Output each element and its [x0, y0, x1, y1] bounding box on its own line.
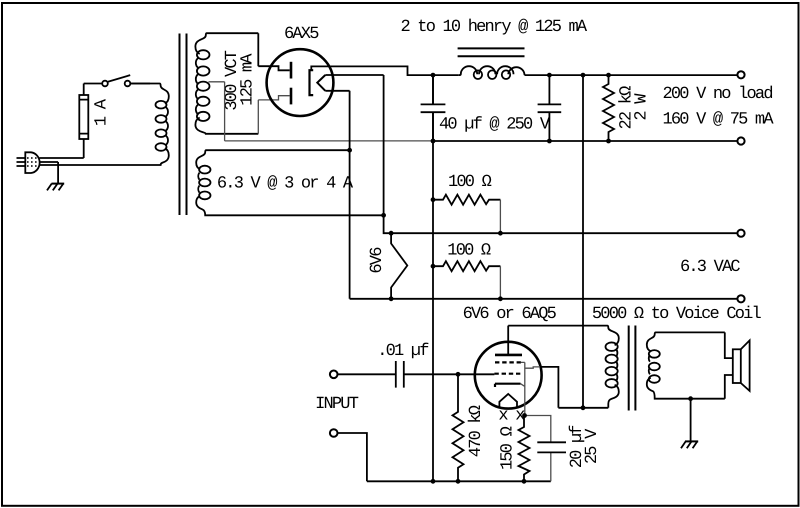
junction: 6.3V winding bottom / V1 filament [381, 213, 386, 218]
AC plug P1 [25, 152, 39, 173]
V2 control grid (dashed) [494, 373, 520, 375]
ground (AC safety) [47, 184, 64, 191]
wire: V1 filament pin to heater junction A [325, 75, 383, 215]
svg-text:100 Ω: 100 Ω [447, 242, 491, 261]
svg-text:6.3 V @ 3 or 4 A: 6.3 V @ 3 or 4 A [217, 175, 354, 194]
wire: HV center tap to B- bus [209, 82, 434, 141]
input jack J2 [330, 429, 338, 437]
wire: V1 filament pin to heater junction B [325, 91, 349, 299]
junction: ground bus / ground rail [431, 479, 436, 484]
terminal: 6.3 VAC upper [737, 230, 744, 237]
svg-text:470 kΩ: 470 kΩ [467, 405, 486, 457]
junction: node K cathode [522, 413, 527, 418]
junction: B+ rail / R1 [606, 73, 611, 78]
svg-text:40 µf @ 250 V: 40 µf @ 250 V [439, 116, 551, 135]
junction: 6.3V winding top / V1 filament [347, 148, 352, 153]
wire: plug neutral to primary bottom [40, 164, 151, 166]
junction: B- bus / C2 [547, 139, 552, 144]
junction: grid line / R4 [456, 372, 461, 377]
svg-text:2 to 10 henry @ 125 mA: 2 to 10 henry @ 125 mA [401, 18, 588, 37]
B- bus wire [433, 140, 737, 142]
junction: B+ / OPT primary [581, 405, 586, 410]
terminal: B- output [737, 137, 744, 144]
transformer T1 core [180, 34, 187, 216]
output transformer T2 core [629, 326, 636, 411]
junction: heater line 2 / R3 [498, 296, 503, 301]
svg-text:6V6 or 6AQ5: 6V6 or 6AQ5 [463, 305, 557, 324]
resistor R3 100 Ohm hum balance [433, 261, 500, 271]
V1 cathode [310, 70, 314, 95]
svg-text:160 V @ 75 mA: 160 V @ 75 mA [663, 111, 775, 130]
svg-text:150 Ω: 150 Ω [499, 426, 518, 470]
V1 filament [317, 75, 325, 91]
junction: B- bus / C1 [431, 139, 436, 144]
main ground vertical wire [432, 75, 434, 481]
plug prong lines [17, 158, 26, 166]
wire: plug hot to fuse [40, 157, 84, 159]
svg-text:125 mA: 125 mA [239, 53, 258, 106]
wire: R3 to heater line 2 [499, 266, 501, 299]
B+ rail wire to terminals [525, 74, 738, 76]
svg-text:.01 µf: .01 µf [377, 342, 429, 361]
fuse F1 1 A [79, 84, 88, 159]
wire: HV top end to plate 1 of 6AX5 [258, 33, 289, 70]
tube V1 6AX5 envelope [267, 49, 334, 116]
B+ screen feed vertical wire [582, 75, 584, 408]
V2 screen grid (dashed) [495, 361, 521, 363]
svg-text:x x: x x [498, 407, 525, 426]
resistor R4 470 kOhm grid leak [453, 374, 464, 481]
svg-text:INPUT: INPUT [315, 395, 359, 414]
junction: ground bus / R4 [456, 479, 461, 484]
wire: R2 to heater line 1 [499, 200, 501, 234]
junction: B+ rail / screen feed [581, 73, 586, 78]
output transformer T2 primary [508, 326, 619, 408]
terminal: B+ output [737, 71, 744, 78]
wire: plug to safety ground [40, 162, 58, 184]
transformer T1 heater secondary 6.3 V [196, 150, 383, 215]
tube V2 6V6/6AQ5 envelope [475, 342, 542, 409]
V1 plate 1 [290, 62, 293, 79]
speaker LS1 [733, 340, 750, 391]
junction: heater line 1 / R2 [498, 231, 503, 236]
svg-text:6AX5: 6AX5 [284, 25, 319, 44]
junction: ground rail / R2 [431, 197, 436, 202]
V1 plate 2 [290, 88, 293, 105]
junction: speaker return / ground tap [688, 396, 693, 401]
wire: HV bottom end to plate 2 of 6AX5 [258, 96, 289, 134]
capacitor C3 .01 uf coupling [338, 361, 404, 388]
terminal: 6.3 VAC lower [737, 295, 744, 302]
wire: heater junction A to 6V6 heater [384, 215, 392, 233]
svg-text:5000 Ω to Voice Coil: 5000 Ω to Voice Coil [592, 305, 762, 324]
junction: heater line 2 / 6V6 heater [389, 296, 394, 301]
ground bus wire [367, 480, 551, 482]
wire: V2 plate to OPT primary [507, 326, 509, 355]
svg-text:200 V no load: 200 V no load [663, 85, 773, 104]
resistor R1 22 kOhm bleeder [603, 75, 614, 141]
svg-text:2 W: 2 W [632, 93, 651, 121]
junction: ground rail / R3 [431, 264, 436, 269]
junction: B+ rail / C1 [431, 73, 436, 78]
transformer T1 primary winding [130, 84, 169, 166]
svg-text:6V6: 6V6 [368, 247, 387, 274]
wire: V2 cathode to node K [521, 362, 525, 415]
wire: V2 screen to B+ [521, 362, 540, 368]
junction: B+ rail / C2 [547, 73, 552, 78]
switch S1 [84, 75, 150, 86]
wire: V1 cathode to B+ rail [311, 66, 459, 75]
transformer T1 HV secondary winding 300 VCT [195, 33, 258, 134]
V2 heater [499, 394, 517, 407]
wire: J2 to ground bus [338, 433, 367, 481]
V2 plate [495, 354, 522, 357]
wire: grid line to V2 [404, 373, 495, 375]
junction: B- bus / R1 [606, 139, 611, 144]
svg-text:25 V: 25 V [583, 428, 602, 464]
junction: heater line 1 / 6V6 heater [389, 231, 394, 236]
capacitor C4 20 uf bypass [525, 416, 567, 482]
svg-text:6.3 VAC: 6.3 VAC [680, 258, 740, 277]
svg-text:1 A: 1 A [92, 98, 111, 126]
output transformer T2 secondary [647, 332, 725, 398]
heater line 2 wire to terminal [350, 298, 738, 300]
wire: speaker ground tap [690, 399, 692, 442]
heater line 1 wire to terminal [391, 232, 737, 234]
V2 cathode [495, 384, 521, 387]
ground (speaker return) [681, 441, 698, 448]
choke L1 2 to 10 henry [459, 66, 525, 79]
resistor R5 150 Ohm cathode bias [519, 416, 530, 482]
junction: ground bus / R5 [522, 479, 527, 484]
heater of 6V6 (brace symbol) [391, 233, 407, 299]
choke L1 core bars [458, 48, 525, 56]
wire: T2 secondary to speaker [725, 332, 733, 398]
capacitor C1 40uf [421, 75, 446, 141]
resistor R2 100 Ohm hum balance [433, 195, 500, 205]
input jack J1 [330, 371, 338, 379]
capacitor C2 40uf [538, 75, 562, 141]
svg-text:100 Ω: 100 Ω [448, 173, 492, 192]
